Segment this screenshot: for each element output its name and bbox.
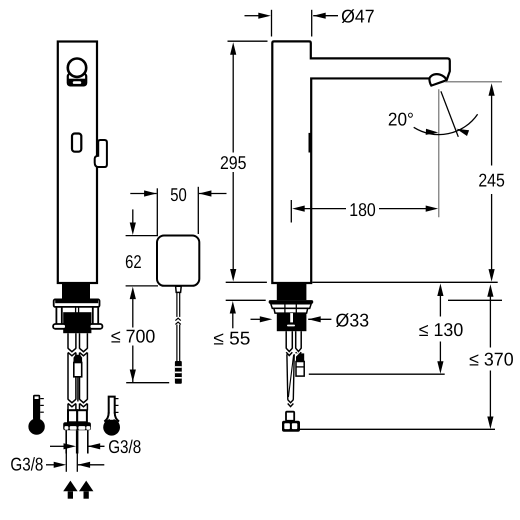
svg-text:Ø33: Ø33	[336, 309, 370, 330]
svg-text:50: 50	[170, 184, 187, 205]
svg-text:Ø47: Ø47	[341, 5, 375, 26]
svg-text:G3/8: G3/8	[10, 454, 43, 475]
svg-text:180: 180	[349, 199, 376, 220]
svg-text:G3/8: G3/8	[108, 436, 141, 457]
svg-text:≤ 130: ≤ 130	[419, 319, 464, 340]
svg-text:295: 295	[220, 152, 247, 173]
svg-text:≤ 370: ≤ 370	[469, 349, 514, 370]
svg-text:≤ 55: ≤ 55	[213, 327, 250, 348]
svg-text:20°: 20°	[388, 108, 414, 129]
svg-text:245: 245	[478, 170, 505, 191]
svg-text:62: 62	[125, 251, 142, 272]
svg-text:≤ 700: ≤ 700	[111, 325, 156, 346]
